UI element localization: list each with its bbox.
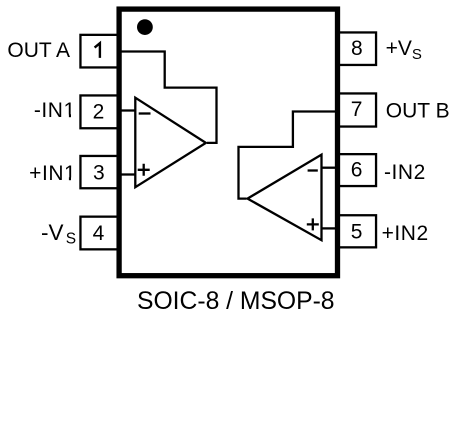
IC body U1 SOIC-8 package outline xyxy=(119,9,337,276)
pin 1 box xyxy=(80,35,119,68)
svg-text:3: 3 xyxy=(93,161,105,184)
op-amp B triangle xyxy=(248,155,322,241)
op-amp A minus symbol xyxy=(139,112,151,114)
pin 5 box xyxy=(338,215,377,247)
wire pin7 to op-amp B output xyxy=(239,112,336,199)
pin 7 box xyxy=(338,93,377,126)
op-amp A plus symbol xyxy=(138,164,150,176)
pin 6 box xyxy=(338,154,377,186)
op-amp A triangle xyxy=(135,98,206,188)
op-amp B plus symbol xyxy=(307,218,319,230)
wire pin2 to op-amp A inverting input xyxy=(121,109,135,111)
wire pin6 to op-amp B inverting input xyxy=(322,167,336,169)
svg-text:OUT A: OUT A xyxy=(7,39,70,62)
wire pin3 to op-amp A non-inverting input xyxy=(121,173,135,175)
svg-text:-IN2: -IN2 xyxy=(384,161,426,184)
svg-text:8: 8 xyxy=(351,37,363,60)
svg-text:-IN1: -IN1 xyxy=(34,99,76,122)
pin 3 box xyxy=(80,156,119,188)
pin 1 marker dot xyxy=(137,19,153,35)
pin 2 box xyxy=(80,95,119,128)
pin 8 box xyxy=(338,32,377,64)
svg-text:5: 5 xyxy=(351,221,363,244)
label -IN1 (pin 2) xyxy=(34,99,76,122)
svg-text:+IN2: +IN2 xyxy=(382,222,429,245)
op-amp B minus symbol xyxy=(308,169,318,171)
svg-text:OUT B: OUT B xyxy=(386,100,450,123)
svg-text:7: 7 xyxy=(351,98,363,121)
svg-text:SOIC-8 / MSOP-8: SOIC-8 / MSOP-8 xyxy=(137,288,335,315)
svg-text:+IN1: +IN1 xyxy=(29,162,76,185)
pin 4 box xyxy=(80,217,119,250)
label +IN1 (pin 3) xyxy=(29,162,76,185)
wire pin5 to op-amp B non-inverting input xyxy=(322,227,336,229)
wire pin1 to op-amp A output xyxy=(121,52,217,143)
svg-text:2: 2 xyxy=(93,100,105,123)
svg-text:4: 4 xyxy=(93,222,105,245)
pin 1 number xyxy=(95,43,100,58)
svg-text:6: 6 xyxy=(351,159,363,182)
